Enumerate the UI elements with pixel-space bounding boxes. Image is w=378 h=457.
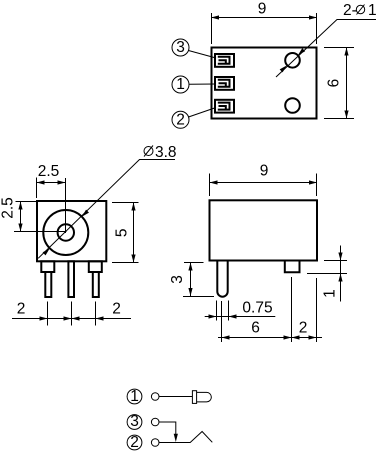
svg-text:0.75: 0.75 <box>242 300 272 317</box>
schematic label 2 <box>127 434 142 451</box>
dimension 6 (side view bottom) <box>218 277 322 342</box>
wire terminal1 to tip <box>159 396 192 398</box>
svg-text:2.5: 2.5 <box>0 197 17 219</box>
front pin 1 <box>41 261 54 297</box>
front view body <box>37 201 106 261</box>
svg-text:2: 2 <box>17 301 26 318</box>
dimension 3 (side view left) <box>169 263 214 297</box>
svg-text:3: 3 <box>176 39 185 56</box>
svg-text:2: 2 <box>112 301 121 318</box>
switch arrow (NC contact) <box>174 434 178 442</box>
side view body <box>210 200 318 260</box>
schematic label 3 <box>127 413 142 430</box>
top view body <box>212 48 317 119</box>
svg-text:2: 2 <box>130 434 139 451</box>
dimension 1 (stub height) <box>307 246 347 302</box>
schematic terminal 2 <box>151 439 159 447</box>
side view stub pin <box>285 261 300 273</box>
schematic label 1 <box>127 388 142 405</box>
pin number label 1 <box>172 76 216 93</box>
hole circle top (2-d1) <box>285 53 300 68</box>
svg-text:3.8: 3.8 <box>155 144 177 161</box>
dimension 5 (front view right) <box>112 203 139 263</box>
svg-text:9: 9 <box>258 1 267 18</box>
side view long pin <box>217 261 227 297</box>
svg-text:9: 9 <box>260 162 269 179</box>
svg-text:1: 1 <box>322 289 339 298</box>
svg-text:1: 1 <box>368 2 377 19</box>
svg-text:2.5: 2.5 <box>38 163 60 180</box>
front pin 2 (middle) <box>68 261 74 297</box>
svg-text:6: 6 <box>251 320 260 337</box>
dimension 2 left (front pins) <box>12 301 131 326</box>
wire terminal2 spring contact <box>159 432 212 443</box>
hole circle d3.8 <box>43 210 88 255</box>
svg-text:1: 1 <box>130 388 139 405</box>
label d3.8 with leader <box>38 144 176 258</box>
dimension 9 (side view) <box>210 162 318 196</box>
terminal 3 (top view) <box>215 54 234 67</box>
tip contact symbol <box>192 391 211 404</box>
pin number label 2 <box>172 108 216 129</box>
svg-text:5: 5 <box>114 228 131 237</box>
dimension 2.5 vertical <box>0 197 36 231</box>
pin number label 3 <box>172 39 216 58</box>
center pin circle <box>58 224 74 240</box>
wire terminal3 to switch arrow <box>159 422 176 438</box>
centerline vertical <box>65 178 67 233</box>
svg-text:2: 2 <box>299 320 308 337</box>
label 2-d1 with leader <box>276 2 377 77</box>
dimension 9 (top view) <box>211 1 317 45</box>
svg-text:3: 3 <box>169 275 186 284</box>
terminal 1 (top view) <box>215 77 234 90</box>
svg-text:3: 3 <box>130 413 139 430</box>
schematic terminal 1 <box>151 393 159 401</box>
svg-text:2-: 2- <box>343 2 357 19</box>
svg-text:1: 1 <box>176 76 185 93</box>
centerline horizontal <box>14 231 67 233</box>
svg-text:6: 6 <box>326 79 343 88</box>
dimension 6 (top view right) <box>324 48 354 119</box>
schematic terminal 3 <box>151 418 159 426</box>
dimension 2.5 horizontal <box>37 163 66 198</box>
dimension 0.75 (pin width) <box>205 300 276 321</box>
svg-text:2: 2 <box>176 111 185 128</box>
hole circle bottom <box>285 98 300 113</box>
terminal 2 (top view) <box>215 100 234 113</box>
front pin 3 <box>89 261 102 297</box>
